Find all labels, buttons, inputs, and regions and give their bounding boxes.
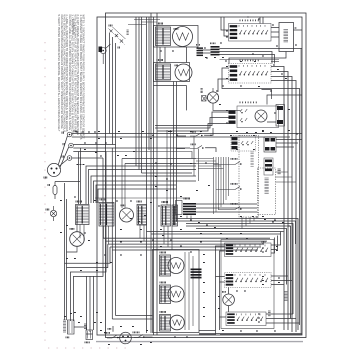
wire — [196, 229, 287, 285]
wire — [157, 124, 229, 132]
outlet labels — [133, 332, 139, 334]
oven light switch SW3 — [229, 106, 279, 128]
wire — [103, 237, 270, 239]
wire — [271, 275, 288, 277]
wire labels bottom left — [60, 197, 188, 346]
terminal L1 — [67, 132, 72, 137]
relay contact group G1 — [231, 162, 242, 165]
wire — [74, 158, 104, 321]
wire — [71, 152, 107, 322]
wire — [72, 157, 103, 159]
wire — [176, 135, 186, 137]
wire — [153, 17, 155, 335]
door switch cluster — [100, 27, 125, 64]
wire — [141, 17, 143, 173]
wire — [83, 225, 85, 242]
wire — [86, 166, 196, 204]
relay contact group G3 — [231, 207, 242, 210]
wire — [108, 226, 110, 244]
wire — [143, 225, 145, 241]
relay block K3 — [264, 158, 273, 175]
wire — [228, 288, 230, 295]
S9 label — [160, 282, 166, 284]
wire labels left buses — [77, 131, 264, 191]
wire — [98, 189, 176, 203]
wire — [86, 276, 88, 330]
G3 labels — [231, 203, 237, 205]
S10 label — [160, 311, 166, 313]
wire — [271, 61, 279, 63]
wire — [119, 337, 120, 339]
K2 label — [191, 144, 195, 146]
connector P3 — [191, 269, 202, 279]
wire — [89, 170, 197, 205]
P1 label — [197, 44, 200, 46]
G2 labels — [231, 183, 237, 185]
wire — [66, 199, 68, 320]
wire — [220, 55, 275, 64]
wire — [176, 82, 178, 222]
E1 label — [174, 28, 178, 30]
wire — [164, 47, 166, 63]
infinite switch S2 — [99, 203, 114, 227]
terminal L2 — [67, 156, 72, 161]
surface switch bank SW2 — [229, 64, 272, 84]
SW3 labels — [240, 102, 256, 104]
latch switch row B — [225, 273, 272, 288]
wire — [148, 17, 150, 150]
S3 label — [137, 201, 141, 203]
wire — [220, 48, 303, 50]
wire — [106, 152, 192, 159]
wire — [206, 88, 213, 98]
svg-text:8101P546-60: 8101P546-60 — [72, 19, 76, 35]
wire — [205, 148, 216, 152]
clock text — [284, 30, 289, 42]
wire — [220, 281, 225, 283]
wire — [271, 232, 281, 246]
wire — [139, 225, 141, 238]
probe labels — [105, 332, 110, 334]
wire — [229, 52, 286, 64]
wire — [112, 249, 258, 251]
wire — [186, 226, 291, 319]
latch switch row A — [225, 243, 272, 257]
wire — [167, 226, 169, 247]
wire — [78, 152, 80, 205]
motor M2 — [120, 208, 134, 222]
M3 label — [223, 291, 226, 293]
wire — [86, 333, 93, 335]
wire — [170, 130, 172, 205]
wire — [190, 216, 192, 222]
fuse F1 — [53, 182, 57, 200]
wire — [221, 17, 229, 30]
wire — [64, 183, 66, 320]
wire — [122, 158, 196, 160]
wire — [103, 226, 105, 238]
oven thermostat S7 — [156, 64, 171, 80]
wire — [108, 243, 264, 245]
wire — [276, 172, 297, 182]
wire — [262, 90, 303, 105]
wire labels bundle — [104, 216, 274, 256]
wire L1 bus — [72, 133, 302, 135]
wire — [142, 172, 193, 174]
door lock text — [284, 292, 287, 301]
wire — [220, 334, 302, 336]
wire — [294, 29, 303, 31]
wire — [266, 313, 293, 315]
wire — [150, 13, 152, 333]
wire — [196, 207, 257, 209]
wire — [96, 185, 176, 203]
wire — [135, 17, 137, 166]
wire — [121, 159, 123, 209]
wire — [155, 112, 229, 126]
wire — [146, 17, 148, 333]
wire — [271, 280, 292, 282]
motor M1 label — [70, 228, 74, 230]
wire — [218, 79, 229, 92]
wire — [224, 17, 229, 36]
wire — [112, 326, 114, 332]
wire — [112, 37, 114, 145]
P2 label — [211, 43, 216, 45]
wire — [196, 203, 257, 205]
wire — [220, 316, 227, 318]
door switch labels2 — [127, 30, 129, 35]
plug label — [44, 177, 47, 179]
wire — [112, 318, 152, 320]
A2 right labels — [278, 169, 281, 174]
SW2 labels — [240, 60, 258, 62]
wire — [115, 43, 117, 145]
wire — [93, 276, 95, 330]
latch switch row D — [226, 312, 266, 326]
wire — [112, 147, 190, 149]
wire — [109, 33, 111, 134]
wire — [67, 244, 108, 268]
wire — [222, 68, 276, 89]
wire stubs top — [128, 20, 160, 25]
rear element box — [153, 250, 200, 333]
wire — [176, 148, 185, 150]
infinite switch S4 — [161, 205, 171, 226]
wire — [271, 27, 279, 29]
oven sensor B1 — [207, 92, 218, 103]
wire — [94, 181, 197, 203]
wire — [196, 159, 224, 169]
wire — [80, 148, 82, 204]
wire — [220, 251, 225, 330]
wire — [216, 276, 225, 278]
outlet contact — [107, 335, 153, 339]
box inner wire — [192, 256, 194, 326]
TF1 label — [84, 324, 87, 329]
wire — [267, 121, 276, 123]
wire — [65, 247, 111, 263]
scan smudge line — [96, 341, 303, 343]
wire — [173, 82, 175, 219]
wire labels rows — [203, 244, 280, 332]
wire — [276, 89, 300, 326]
S6 label — [157, 23, 163, 25]
S2 label — [100, 199, 106, 201]
element switch S10 — [160, 315, 171, 332]
wire — [216, 246, 225, 335]
wire N bus — [72, 136, 290, 138]
wire labels top right — [160, 17, 297, 151]
lamp connector box — [276, 105, 285, 127]
wire — [204, 128, 213, 135]
terminal box TB3 — [264, 137, 276, 152]
wire — [89, 276, 91, 332]
wire — [214, 165, 231, 210]
wire — [271, 31, 279, 33]
disconnect block TB2 — [68, 320, 75, 334]
element switch S9 — [160, 285, 171, 304]
fuse label — [48, 184, 49, 186]
surface switch bank SW1 — [229, 24, 272, 42]
wire — [262, 17, 264, 24]
wire — [166, 130, 168, 205]
wire — [159, 47, 161, 63]
wire — [242, 217, 254, 229]
control wire bundle — [214, 157, 229, 214]
wire — [79, 225, 81, 239]
wire — [276, 140, 302, 148]
wire — [155, 118, 229, 129]
wire — [271, 236, 278, 250]
electronic oven control A2 — [258, 168, 276, 215]
door switch connector — [99, 47, 103, 53]
wire labels extra — [64, 57, 298, 331]
element switch S8 — [160, 255, 171, 276]
wire — [199, 333, 302, 335]
wire — [67, 222, 78, 252]
wire — [147, 231, 284, 233]
wire — [196, 211, 257, 213]
oven light OL1 — [50, 206, 56, 221]
wire gauge labels — [74, 131, 77, 133]
wire — [186, 47, 188, 63]
infinite switch S5 — [172, 205, 178, 226]
broil element E2 — [175, 64, 192, 81]
lock motor M3 — [223, 294, 235, 306]
wire — [266, 322, 300, 324]
wire — [271, 72, 288, 331]
wire — [106, 240, 267, 242]
spark module — [183, 203, 196, 215]
wire — [194, 136, 199, 181]
wire — [163, 226, 165, 244]
edge tick marks bottom — [48, 347, 128, 349]
wire — [186, 216, 188, 219]
wire — [266, 318, 296, 320]
notes text block — [57, 15, 84, 140]
terminal label N — [63, 143, 65, 145]
wire — [271, 238, 275, 254]
wire — [271, 284, 284, 286]
infinite switch S3 — [137, 205, 147, 226]
spark module box — [176, 201, 183, 215]
bake element E1 — [173, 27, 193, 47]
edge tick marks — [44, 42, 46, 346]
svg-text:5. VERIFY PROPER OPERATION AFT: 5. VERIFY PROPER OPERATION AFTER SERVICI… — [57, 15, 60, 132]
infinite switch S1 — [76, 205, 90, 225]
A2 text — [265, 178, 269, 194]
S4 label — [162, 201, 168, 203]
wire — [220, 59, 280, 61]
broil circuit box — [154, 63, 190, 82]
connector P2 — [211, 46, 220, 55]
box inner wire — [184, 252, 186, 330]
wire — [228, 306, 230, 312]
fan motor M1 — [70, 232, 85, 247]
spark module label — [184, 198, 190, 200]
S8 label — [160, 252, 166, 254]
wire — [116, 315, 153, 317]
wire — [73, 145, 115, 316]
wire — [138, 17, 140, 170]
box inner wire — [188, 252, 190, 330]
wire — [213, 103, 241, 110]
wire — [91, 176, 196, 203]
SW1 labels — [240, 20, 258, 22]
TF1 label2 — [85, 342, 89, 344]
wire — [259, 17, 261, 24]
oven lamp L1 — [255, 110, 267, 122]
E2 label — [175, 65, 178, 67]
wire — [199, 334, 216, 336]
wire — [198, 49, 211, 51]
wire — [73, 151, 106, 153]
sensor label — [201, 89, 203, 93]
wire — [171, 226, 173, 250]
bake circuit box — [154, 26, 199, 48]
wire — [74, 327, 87, 330]
wire — [271, 36, 279, 38]
oven light label — [46, 209, 49, 211]
element E3 — [168, 258, 184, 274]
wire — [203, 52, 211, 54]
latch relay cluster — [231, 136, 256, 152]
element E4 — [168, 286, 184, 302]
row D labels — [268, 311, 271, 316]
connector P1 — [197, 47, 204, 56]
wire — [271, 81, 296, 333]
K1 label — [191, 131, 195, 133]
clock/timer A1 — [279, 23, 294, 52]
wire — [271, 67, 284, 331]
wire — [125, 163, 196, 165]
relay contact group G2 — [231, 187, 242, 190]
terminal label L1 — [62, 132, 64, 134]
frame inner border — [106, 13, 307, 338]
terminal label L2 — [62, 156, 64, 158]
selector contact K1 — [190, 133, 203, 136]
wire — [186, 224, 293, 315]
S1 label — [76, 201, 82, 203]
wire — [110, 246, 261, 248]
door switch labels — [109, 25, 112, 27]
TB2 text — [63, 320, 66, 332]
wire — [73, 148, 112, 319]
motor M2 label — [121, 205, 125, 207]
latch circuit box — [221, 240, 274, 329]
electronic clock control A2a — [239, 136, 259, 218]
selector contact K2 — [190, 146, 204, 149]
thermal fuse TF1 — [86, 330, 93, 340]
wire — [220, 52, 273, 64]
wire — [271, 77, 292, 333]
wire — [95, 197, 190, 199]
A2a text — [251, 152, 254, 166]
wire — [176, 219, 298, 331]
door switch labels — [118, 47, 120, 49]
wire — [156, 13, 158, 335]
sensor connector — [202, 96, 207, 102]
oven selector switch S6 — [156, 27, 171, 46]
terminal N — [69, 143, 74, 148]
convenience outlet R1 — [120, 332, 132, 344]
wire — [151, 233, 281, 235]
wire — [154, 85, 187, 87]
wire — [176, 221, 296, 244]
frame outer border — [97, 17, 302, 335]
wire — [186, 86, 188, 111]
element E5 — [170, 315, 185, 330]
TB2 label — [66, 337, 69, 339]
row A labels — [262, 241, 265, 243]
outlet label2 — [108, 328, 111, 330]
wire — [199, 330, 216, 332]
power cord plug — [47, 136, 68, 177]
wire — [55, 181, 80, 183]
S7 label — [157, 59, 163, 61]
wire — [124, 164, 126, 209]
wire — [300, 49, 302, 334]
G1 labels — [231, 158, 237, 160]
